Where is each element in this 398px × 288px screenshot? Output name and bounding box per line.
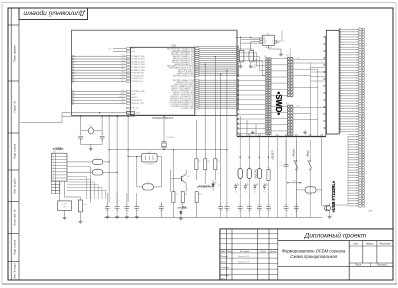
svg-text:Формирователь OFDM сигнала: Формирователь OFDM сигнала [282,249,346,254]
svg-text:Масштаб: Масштаб [379,242,391,245]
svg-text:VBUS: VBUS [263,41,267,43]
svg-text:+3.3V: +3.3V [296,106,300,108]
svg-text:PC7: PC7 [122,74,125,76]
junction [268,157,269,158]
svg-text:+3.3V: +3.3V [307,194,313,196]
svg-text:R5: R5 [199,161,201,163]
wire pin drop [239,137,241,207]
svg-text:28: 28 [74,59,76,61]
svg-text:D+: D+ [283,41,285,43]
svg-text:6: 6 [53,171,54,173]
wire [268,209,270,218]
svg-text:15: 15 [74,78,76,80]
wire resonator right [157,156,161,158]
wire base [171,178,176,180]
capacitor [115,207,120,209]
svg-text:VD3: VD3 [234,191,237,193]
wire bundle DD1 to A2 [195,47,237,108]
wire [259,209,261,218]
wires DD2 left [251,37,260,39]
svg-text:Лист: Лист [225,251,232,253]
svg-text:C7: C7 [160,204,162,206]
svg-text:4: 4 [53,164,54,166]
svg-text:+3.3: +3.3 [108,48,111,50]
ground [115,215,119,218]
A2 bottom edge pin nubs [239,135,322,137]
inductor L4 [305,187,316,193]
svg-text:Н.контр.: Н.контр. [221,275,231,277]
svg-text:PC6/TIM3_CH1: PC6/TIM3_CH1 [132,73,144,75]
microcontroller DD1 STM32F405 [131,47,195,115]
transistor VT1 [176,178,182,180]
wire [116,208,118,215]
module boundary box A2 left edge [236,30,238,136]
wire fan from XS1 [67,167,106,199]
wire [316,189,322,191]
junction [101,116,102,117]
svg-text:Лист: Лист [354,264,361,267]
svg-text:Справ. №: Справ. № [13,101,17,113]
svg-text:PC9: PC9 [122,80,125,82]
svg-text:0.1uF: 0.1uF [62,203,66,205]
svg-text:Т.контр.: Т.контр. [221,267,230,269]
svg-text:Пров.: Пров. [221,262,227,264]
svg-text:«Boot»: «Boot» [306,149,309,157]
wires XP1-XP2 [271,59,287,131]
svg-text:PC5/ADC1_IN15: PC5/ADC1_IN15 [132,69,145,72]
svg-text:C2: C2 [101,134,103,136]
svg-text:ZQ1: ZQ1 [89,126,93,128]
connector XS2 (board edge) [359,28,361,207]
svg-text:100n: 100n [239,210,243,212]
svg-text:PC3/ADC1_IN13: PC3/ADC1_IN13 [132,63,145,66]
ground [279,53,283,56]
crystal ZQ4 [249,50,254,62]
capacitor [78,136,83,138]
junction [205,64,206,65]
wire vertical [127,116,129,202]
svg-text:PH1/OSC_OUT: PH1/OSC_OUT [132,103,145,105]
junction [250,37,251,38]
ground [239,65,243,68]
top-left inverted stamp box [19,8,88,20]
svg-text:L3: L3 [147,182,149,184]
wire [163,116,165,142]
svg-text:9: 9 [53,180,54,182]
wire [106,208,108,215]
svg-text:8: 8 [53,177,54,179]
svg-text:PC5: PC5 [122,69,125,71]
svg-text:PC4/ADC1_IN14: PC4/ADC1_IN14 [132,66,145,69]
svg-text:100n: 100n [160,210,164,212]
wire [239,116,241,137]
svg-text:Подп. и дата: Подп. и дата [13,239,17,255]
wire stub at frame [21,122,63,124]
wire [246,120,248,137]
wires A3 to XS2 [332,29,359,206]
svg-text:7: 7 [53,174,54,176]
wires XP2 right [293,60,326,137]
resistor [204,159,207,170]
module boundary box A1 [72,30,238,115]
svg-text:100n: 100n [258,210,262,212]
wire VDD stub [113,48,126,50]
svg-text:PC3: PC3 [122,63,125,65]
junction [108,149,109,150]
svg-text:2: 2 [53,158,54,160]
svg-text:PD2/SDIO_CMD: PD2/SDIO_CMD [132,91,146,93]
svg-text:№ докум.: № докум. [240,250,250,253]
capacitor [257,207,262,209]
svg-text:100n: 100n [267,210,271,212]
A3 left pins [311,63,327,81]
svg-text:BOOT0: BOOT0 [132,97,138,99]
svg-text:IO1: IO1 [263,37,265,39]
junction [240,157,241,158]
wire DD2 right [277,40,281,42]
svg-text:L6: L6 [249,166,251,168]
svg-text:SWCLK: SWCLK [253,62,258,64]
wire to ground [80,138,82,144]
svg-text:100n: 100n [225,210,229,212]
svg-text:Дата: Дата [270,251,278,253]
svg-text:Инв. № подл.: Инв. № подл. [13,262,17,278]
wire [180,214,182,217]
ground [135,215,139,218]
svg-text:+3.3: +3.3 [292,181,296,183]
svg-text:L5: L5 [240,166,242,168]
capacitor [266,207,271,209]
svg-text:PH0: PH0 [122,99,125,101]
wire [106,193,108,207]
junction [136,156,137,157]
svg-text:R8: R8 [176,194,178,196]
svg-text:100n: 100n [219,210,223,212]
junction [226,69,227,70]
svg-text:PC0: PC0 [122,55,125,57]
svg-text:Дипломный проект: Дипломный проект [303,232,366,240]
junction [116,116,117,117]
wire crystal branch left [80,116,82,135]
module boundary box A2 right edge [325,36,327,137]
A2 left edge pin nubs lower [237,75,239,134]
wire pin drop [285,137,287,207]
wires from beads to rails [103,161,109,163]
junction [116,172,117,173]
junction [287,182,288,183]
svg-text:100n: 100n [116,210,120,212]
junction [127,149,128,150]
svg-text:PC9/SDIO_D1: PC9/SDIO_D1 [132,81,143,83]
junction [108,116,109,117]
capacitor [284,207,289,209]
wire VSS stub [113,50,126,52]
title block (основная надпись) [220,229,393,280]
power rail wires below DD1 [62,112,126,114]
svg-text:+5V: +5V [289,49,292,51]
A3 right edge pin nubs [339,29,341,133]
svg-text:Взам. инв. №: Взам. инв. № [13,209,17,225]
svg-text:PC8: PC8 [122,77,125,79]
svg-text:R12: R12 [267,167,270,169]
svg-text:Подп.: Подп. [260,250,266,253]
junction [99,112,100,113]
resistor R3 [78,200,82,212]
wire [239,209,241,218]
ground [249,65,253,68]
frame left margin columns [8,8,19,280]
svg-text:C12: C12 [258,204,261,206]
capacitor [294,207,299,209]
capacitor [218,207,223,209]
svg-text:100n: 100n [125,210,129,212]
svg-text:18: 18 [74,81,76,83]
DD1 right pin cells and names [195,48,199,109]
junction [173,149,174,150]
svg-text:22p: 22p [101,140,104,142]
resistor R4 horizontal [127,111,135,114]
svg-text:Подп. и дата: Подп. и дата [13,143,17,159]
wires DD1 left pins to rail [72,56,127,103]
wire pin drop [248,137,250,207]
resistor [195,159,198,170]
svg-text:3: 3 [53,161,54,163]
svg-text:IO2: IO2 [263,39,265,41]
svg-text:C14: C14 [285,204,288,206]
resistor [195,192,198,203]
wire emitter [185,183,187,191]
svg-text:30: 30 [74,62,76,64]
wire [248,209,250,218]
svg-text:PC2: PC2 [122,60,125,62]
svg-text:«USB»: «USB» [53,147,64,151]
svg-text:1: 1 [53,155,54,157]
svg-text:31: 31 [74,94,76,96]
svg-text:25: 25 [74,56,76,58]
svg-text:DD1: DD1 [172,44,177,47]
junction [80,116,81,117]
wire [136,208,138,215]
wire pin drop plain [276,137,278,218]
svg-text:XP3: XP3 [286,103,289,105]
svg-text:10: 10 [74,73,76,75]
wire right drop [321,137,323,206]
svg-text:5: 5 [53,167,54,169]
svg-text:VD4: VD4 [244,191,247,193]
diode VD5 [254,183,258,189]
DD1 left pin cells and names [126,48,130,114]
svg-text:C11: C11 [248,204,251,206]
ground [303,131,307,134]
diode VD3 [234,183,238,189]
svg-text:Утв.: Утв. [221,278,226,280]
ground rail [104,216,322,218]
wires to ground [240,62,242,65]
connector XS1 shield cells [51,181,60,193]
svg-text:C8: C8 [219,204,221,206]
wire [295,209,297,218]
svg-text:VT1: VT1 [187,176,190,178]
capacitor [225,207,230,209]
svg-text:100n: 100n [280,166,284,168]
ground [78,220,82,223]
svg-text:PD2: PD2 [122,90,125,92]
svg-text:R7: R7 [218,161,220,163]
wire [250,41,252,50]
svg-text:Схема принципиальная: Схема принципиальная [290,254,337,259]
wire VBUS [67,161,93,163]
capacitor [247,207,252,209]
wire XP2 top stub [289,51,291,58]
svg-text:Масса: Масса [366,242,374,245]
wire [137,186,143,188]
wires resistor rows [195,120,197,159]
resistor [214,159,217,170]
svg-text:ZQ2 8MHz: ZQ2 8MHz [166,137,174,139]
capacitor [159,207,164,209]
wire [153,186,161,188]
svg-text:C3: C3 [106,204,108,206]
junction [259,157,260,158]
svg-text:VD5: VD5 [254,191,257,193]
svg-text:Изм.: Изм. [221,251,226,253]
svg-text:100n: 100n [248,210,252,212]
svg-text:PC8/SDIO_D0: PC8/SDIO_D0 [132,78,143,80]
ground [63,216,67,219]
svg-text:PC0/ADC1_IN10: PC0/ADC1_IN10 [132,55,145,58]
wire [212,187,214,191]
ground [105,215,109,218]
junction [220,74,221,75]
svg-text:12: 12 [74,76,76,78]
wire [126,193,128,207]
svg-text:Лит.: Лит. [352,242,359,245]
wire DD2 bottom [267,45,269,49]
wire [296,189,305,191]
junction [117,116,118,117]
svg-text:PC1: PC1 [122,58,125,60]
capacitor [134,207,139,209]
svg-text:Иванов И.И.: Иванов И.И. [238,256,250,258]
svg-text:STM32F405RGT6: STM32F405RGT6 [152,116,174,120]
wire crystal branch right [101,116,103,135]
svg-text:Перв. примен.: Перв. примен. [13,44,17,62]
svg-text:D+: D+ [272,41,274,43]
svg-text:PC2/ADC1_IN12: PC2/ADC1_IN12 [132,60,145,63]
wire [160,209,162,218]
junction [226,149,227,150]
resistor [181,192,184,203]
svg-text:C4: C4 [116,204,118,206]
svg-text:CSTCE8M00: CSTCE8M00 [145,163,155,165]
module boundary box A2 bottom edge [237,136,326,138]
svg-text:NRST: NRST [253,67,257,69]
ground [251,131,255,134]
stair wires top-left of XP1 [239,49,266,75]
svg-text:100n: 100n [285,210,289,212]
LED VD2 [180,210,182,212]
svg-text:Разраб.: Разраб. [221,256,229,258]
diode VD6 [263,183,267,189]
top rail wire [236,36,251,38]
wires A2 to XP1 [237,76,266,134]
wire pin drop [259,137,261,207]
diode VD4 [244,183,248,189]
svg-text:XP2: XP2 [286,55,289,57]
junction [215,56,216,57]
resistor [172,192,175,203]
wire power rail y149 [109,149,227,151]
svg-text:«POWER»: «POWER» [197,184,212,188]
A2 left edge pin nubs [237,46,239,109]
svg-text:+3.3V: +3.3V [296,58,300,60]
wire DD2 up right [281,31,283,42]
transistor VT2 [325,205,331,211]
svg-text:L7: L7 [259,166,261,168]
svg-text:«BOOT0»: «BOOT0» [256,168,258,179]
svg-text:PB0/TIM3_CH3/ADC1_IN8: PB0/TIM3_CH3/ADC1_IN8 [173,74,194,77]
ground [179,217,183,220]
capacitor [100,136,105,138]
svg-text:XP1: XP1 [264,56,267,58]
svg-text:C1: C1 [80,134,82,136]
svg-text:100n: 100n [295,210,299,212]
junction [240,37,241,38]
wire [136,193,138,207]
wire [285,209,287,218]
A3 left edge nubs [324,36,326,128]
capacitor [105,207,110,209]
wire [255,124,257,137]
svg-text:C6: C6 [136,204,138,206]
wire [322,205,325,207]
capacitor [125,207,130,209]
LED VD1 [212,180,214,184]
wire [89,167,91,203]
svg-text:C9: C9 [226,204,228,206]
wire [240,40,242,51]
svg-text:C17: C17 [280,163,283,165]
wire [126,208,128,215]
junction [249,157,250,158]
svg-text:PC13/RTC_AF1: PC13/RTC_AF1 [181,107,194,110]
svg-text:PC6: PC6 [122,72,125,74]
wire collector [185,170,187,174]
component U2 [58,201,72,210]
svg-text:PC4: PC4 [122,66,125,68]
svg-text:Листов 1: Листов 1 [376,264,388,267]
svg-text:Дипломный проект: Дипломный проект [23,10,86,18]
svg-text:PH0/OSC_IN: PH0/OSC_IN [132,100,143,102]
svg-text:NRST: NRST [120,93,124,95]
svg-text:OSC_IN: OSC_IN [132,108,139,110]
ground [125,215,129,218]
cap C17 [285,140,287,164]
junction [163,116,164,117]
svg-text:Петров П.П.: Петров П.П. [238,262,250,264]
resistor R11 [239,50,244,62]
wire [160,202,162,207]
svg-text:C10: C10 [239,204,242,206]
wire pin drop [295,137,297,207]
wires cluster [59,181,61,201]
svg-text:GND: GND [253,65,256,67]
wire +3.3 arrow [288,182,302,184]
ground [89,147,93,150]
svg-text:PH1: PH1 [122,102,125,104]
wire [226,202,228,207]
svg-text:GND: GND [263,42,266,44]
